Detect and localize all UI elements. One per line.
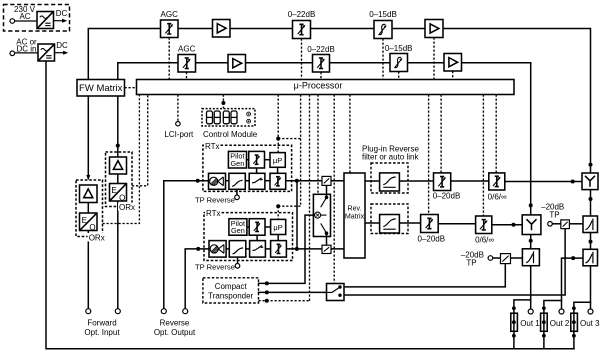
ORx-R module (dashed) [106,152,133,207]
fuse/choke of Out 2 [541,313,548,331]
switch of RTx1 [249,173,265,189]
svg-text:TP: TP [549,210,559,219]
svg-text:TP Reverse: TP Reverse [195,263,235,272]
amplifier A3 (forward path 1) [425,20,443,38]
node: below Y1 [589,197,593,201]
wire: 0/6/inf (1) to combiner Y1 [505,181,582,183]
wire: dashed to 0/6/inf (2) [482,95,484,217]
node: fuse 1 top pin [512,306,516,310]
svg-text:ORx: ORx [89,234,105,243]
wire: dashed 0-15dB (1) control [382,39,384,80]
equalizer 0-15dB (forward path 1) [374,21,392,39]
svg-text:E: E [82,216,87,225]
wire: AGC2 to amp A2 [196,62,229,64]
svg-text:0–15dB: 0–15dB [369,10,397,19]
wire: dashed 0-15dB (2) control [398,72,400,80]
wire: dashed bus down right of RTx [300,95,302,207]
wire: RTx1 internal segments [226,180,229,182]
wire: dashed to 0-20dB (1) [440,95,442,173]
fuse/choke of Out 3 [571,313,578,331]
svg-text:0–22dB: 0–22dB [288,10,316,19]
wire: 0-15dB (2) to amp A4 [408,62,445,64]
FW Matrix [77,80,125,97]
svg-text:0–20dB: 0–20dB [418,234,446,243]
dashed control lines [103,38,497,301]
svg-text:O: O [119,193,125,202]
wire: dashed to 0/6/inf (1) [495,95,497,173]
wire: RTx2 PilotGen-atten-uP links [247,226,249,228]
svg-text:μ-Processor: μ-Processor [294,80,343,90]
amplifier A2 (forward path 2) [228,55,246,73]
svg-text:μP: μP [273,156,282,165]
test point: -20dB TP right [548,222,553,227]
amplifier A1 (forward path 1) [213,20,231,38]
transponder routing switch [327,284,345,301]
svg-text:LCI-port: LCI-port [164,130,194,139]
wire: dashed to OT module [317,95,319,195]
pilot generator of RTx1 [228,151,246,168]
attenuator AGC2 (forward path 2) [178,55,196,73]
plug-in reverse filter 2 (dashed) [371,204,408,234]
indicator LEDs of Control Module [247,112,251,116]
svg-text:Rev.: Rev. [347,204,361,212]
laser transmitter of RTx1 [209,173,226,189]
level pad of RTx1 [229,173,245,189]
switch R1 (below Y1) [583,216,598,233]
microprocessor uP of RTx2 [271,219,286,234]
wire: switch R2 down to Out 3 jack [590,266,592,309]
wire: power DC line from AC/DC converter down and along bottom rail [46,61,574,349]
wire: DC output arrow of U1 [54,20,64,22]
wire: -20dB TP right: circle to box [552,223,561,225]
wire: FW Matrix down to ORx-L (arrow end) [87,96,89,179]
svg-text:E: E [111,186,116,195]
wire: RTx1 output left and down to Reverse Opt. Output jack 1 [164,181,209,309]
wire: dashed to Rev Matrix [349,95,351,174]
node: transponder port 2 [265,290,269,294]
node: uP2 control branch [276,204,280,208]
wire: 0-15dB (1) to amp A3 [392,28,425,30]
wire: tie line between RTx1 and RTx2 outputs [296,181,298,249]
jack: Reverse Opt. Output 1 [161,309,166,314]
svg-text:FW Matrix: FW Matrix [79,83,123,94]
power supply unit 230V AC (plug-in, dashed) [4,5,70,32]
arrow into ORx-L [86,175,90,180]
ORx-L module (dashed) [76,180,103,237]
attenuator 0-22dB (forward path 2) [313,55,330,73]
svg-text:Out 1: Out 1 [520,319,540,328]
wire: Rev Matrix output row A to 0-20dB (1) [365,180,434,182]
wire: dashed amp A3 control [433,38,435,80]
switch of RTx2 [250,241,266,258]
plug-in reverse filter 1 (dashed) [371,163,408,193]
switch R2 (Out 2/3 select) [583,249,598,265]
node: R2 input branch [571,256,575,260]
node: reverse B before Y2 [512,223,516,227]
wire: forward path row 1 from corner into AGC1 [88,29,160,80]
node: forward 1 above Y1 [589,163,593,167]
wire: branch to switch R2 input, down to Out 2 jack [562,258,584,309]
attenuator 0-22dB (forward path 1) [293,21,311,39]
wire: AC/DC input to converter U2 [15,52,38,54]
wire: amp A3 right, down right side to combiner Y1 [443,29,591,174]
svg-text:Gen: Gen [231,159,245,168]
wire: RTx2 line to Rev Matrix [286,248,344,250]
node: between R1 and R2 [589,240,593,244]
node: below Y2 [529,239,533,243]
wire: AGC1 to amp A1 [178,28,213,30]
wire: ORx-L E/O down to Forward Opt. Input jack 1 [87,231,89,309]
wire: dashed to 0-20dB (2) [428,95,430,215]
LCI-port connector [176,122,180,126]
amplifier A4 (forward path 2) [444,54,462,72]
tap switch T2 on RTx2 line [322,245,331,253]
Compact Transponder (dashed) [203,278,259,303]
svg-text:0/6/∞: 0/6/∞ [488,192,507,201]
svg-text:DC: DC [56,9,68,18]
svg-text:Opt. Input: Opt. Input [84,328,120,337]
jack: Forward Opt. Input 1 [86,309,91,314]
attenuator 0/6/inf (reverse path 1) [489,173,505,190]
wire: tap T1 down into OT module [326,185,328,197]
wire: RTx2 internal segments [226,248,229,250]
svg-text:AGC: AGC [161,10,179,19]
amplifier in ORx-L [80,185,98,203]
wire: FW Matrix down to ORx-R [117,96,119,157]
jack: Out 1 [528,309,533,314]
svg-text:ORx: ORx [119,203,135,212]
terminal: AC or DC input [10,51,15,56]
u-Processor bar [137,80,515,95]
wire: dashed 0-22dB (2) control [320,72,322,80]
E/O converter of ORx-R [110,184,127,202]
switch box of -20dB TP right [561,220,570,229]
attenuator (pilot level) of RTx2 [249,219,265,236]
wire: dashed AGC1 control [168,38,170,80]
svg-text:Control Module: Control Module [203,130,258,139]
switch SL (below Y2) [522,249,539,266]
wire: 0-22dB (2) to 0-15dB (2) [330,62,391,64]
wire: amp A4 right, down to combiner Y2 [462,63,531,215]
attenuator (pilot level) of RTx1 [249,151,265,168]
node: fuse 3 mid [572,320,576,324]
node: fuse 3 bottom pin [572,334,576,338]
wire: ORx-R E/O down to Forward Opt. Input jack 2 [117,201,119,309]
wire: -20dB TP left box to switch SL [511,257,523,259]
svg-text:Reverse: Reverse [160,319,190,328]
wire: RTx1 TP tap [236,189,238,195]
laser transmitter of RTx2 [209,241,226,258]
node: fuse 1 mid [512,320,516,324]
wire: dashed transponder bottom port horizontal [259,300,310,302]
wire: dashed cross link at uP2 [278,205,300,207]
svg-text:Matrix: Matrix [345,212,365,220]
fuse/choke of Out 1 [511,313,518,331]
switch box of -20dB TP left [501,254,511,264]
svg-text:Gen: Gen [231,226,245,235]
TP Reverse test point of RTx2 [235,264,240,269]
wire: dashed to transponder switch [333,95,335,284]
wire: 0-22dB (1) to 0-15dB (1) [311,28,375,30]
node: transponder port 3 [265,299,269,303]
wire: 0-20dB (2) to 0/6/inf (2) [438,223,475,225]
node: transponder port 1 [265,281,269,285]
svg-text:AC: AC [19,12,30,21]
svg-text:Opt. Output: Opt. Output [154,328,196,337]
RTx module 2 (dashed) [204,213,293,261]
combiner Y2 (output 1 branch) [522,215,541,235]
wire: switch SL down to Out 1 jack [530,266,532,309]
node: RTx1 output right [295,179,299,183]
svg-text:DC in: DC in [16,45,36,54]
attenuator 0/6/inf (reverse path 2) [476,216,492,234]
svg-text:Compact: Compact [215,282,248,291]
AC/DC converter U1 [37,12,54,29]
wire: amp A1 to 0-22dB (1) [230,28,293,30]
wire: dashed to ORx-R [132,95,148,186]
node: RTx2 output right [295,247,299,251]
wire: -20dB TP left: circle to box [493,257,501,259]
attenuator (output level) of RTx1 [270,173,286,189]
wire: 0/6/inf (2) to combiner Y2 [492,224,522,226]
svg-text:filter or auto link: filter or auto link [362,152,419,161]
wire: -20dB TP left box down, left to transponder switch top port [344,264,505,287]
wire: dashed to RTx2 uP [277,206,279,219]
wire: 0-20dB (1) to 0/6/inf (1) [451,180,489,182]
wire: OT module down to tap T2 [326,233,328,245]
7-segment display digits 8888 [207,111,238,124]
text labels [14,5,412,94]
wire: 230V AC input to converter [15,20,37,22]
TP Reverse test point of RTx1 [235,195,240,200]
svg-text:TP Reverse: TP Reverse [195,195,235,204]
node: fuse 2 bottom pin [542,334,546,338]
node: RTx1 output left [196,179,200,183]
node: fuse 1 bottom pin [512,334,516,338]
attenuator 0-20dB (reverse path 1) [434,173,451,191]
wire: ORx-L amp to E/O [87,203,89,214]
wire: dashed FW Matrix to uProcessor [125,87,137,89]
wire: dashed to ORx-L [103,95,140,224]
svg-text:0–20dB: 0–20dB [433,191,461,200]
filter F1 (high pass) [380,173,400,191]
node: fuse 2 mid [542,320,546,324]
microprocessor uP of RTx1 [270,153,285,168]
combiner Y1 (output 3 branch) [582,173,598,190]
wire: RTx2 TP tap [237,257,239,263]
wire: Out1 fuse tap [514,300,531,349]
attenuator AGC1 (forward path 1) [161,20,179,38]
pilot generator of RTx2 [229,219,247,236]
Rev Matrix [344,173,365,258]
wire: transponder top port to OT combiner circle [259,215,315,283]
svg-text:RTx: RTx [206,209,221,218]
wire: dashed to transponder bottom port [309,95,311,301]
wire: Rev Matrix output row B to 0-20dB (2) [365,222,421,224]
level pad of RTx2 [229,241,246,258]
E/O converter of ORx-L [80,213,98,231]
wire: forward path row 2 from corner into AGC2 [118,63,178,80]
svg-text:O: O [89,223,95,232]
node: RTx2 output left [196,247,200,251]
jack: Out 2 [559,309,564,314]
wire: dashed to Control Module [222,95,224,109]
svg-text:TP: TP [466,258,476,267]
node: forward 2 above Y2 [529,203,533,207]
svg-text:0–22dB: 0–22dB [307,45,335,54]
wire: dashed to LCI-port [177,95,179,122]
wire: -20dB TP right box to switch R1 [569,223,583,225]
jack: Out 3 [588,309,593,314]
RTx module 1 (dashed) [203,145,292,191]
svg-text:Out 2: Out 2 [550,319,570,328]
OT changeover module [313,194,330,236]
wire: -20dB TP right box down, left to transponder switch bottom port [344,229,565,295]
tap switch T1 on RTx1 line [322,176,331,185]
svg-text:RTx: RTx [205,142,220,151]
node: reverse A before Y1 [571,180,575,184]
wire: ORx-R amp to E/O [117,174,119,184]
svg-text:0/6/∞: 0/6/∞ [475,236,494,245]
svg-text:AGC: AGC [178,45,196,54]
test point: -20dB TP left [488,256,493,261]
wire: RTx2 output left and down to Reverse Opt. Output jack 2 [185,249,209,309]
wire: DC output arrow of U2 [55,52,65,54]
AC/DC converter U2 [38,44,55,61]
svg-text:Forward: Forward [87,319,116,328]
svg-text:Transponder: Transponder [208,292,253,301]
wire: dashed cross link at uP1 [278,138,300,140]
filter F2 (high pass) [380,215,400,234]
svg-text:0–15dB: 0–15dB [385,44,413,53]
wire: RTx1 PilotGen-atten-uP links [247,159,249,161]
wire: Y2 down to switch SL [530,235,532,249]
svg-text:DC: DC [56,41,68,50]
wire: Out2 fuse tap [544,301,562,349]
wire: dashed 0-22dB (1) control [301,39,303,80]
node: fuse 3 top pin [572,306,576,310]
wire: RTx1 line to Rev Matrix [286,180,344,182]
equalizer 0-15dB (forward path 2) [390,54,408,72]
node: ORx-R feed [116,144,120,148]
node: fuse 2 top pin [542,306,546,310]
attenuator (output level) of RTx2 [271,241,287,258]
Control Module [202,109,255,126]
svg-text:Out 3: Out 3 [580,319,600,328]
node: uP1 control branch [276,137,280,141]
terminal: 230V AC input [10,19,15,24]
wire: Out3 fuse tap [574,302,591,348]
wire: transponder middle port to transponder switch [259,291,327,293]
wire: dashed AGC2 control [186,72,188,80]
jack: Forward Opt. Input 2 [115,309,120,314]
wire: dashed amp A4 control [452,71,454,80]
wire: switch R1 down to switch R2 [590,233,592,250]
wire: Y1 down to switch R1 [590,190,592,216]
node: control module drop [221,101,225,105]
wire: amp A2 to 0-22dB (2) [246,62,313,64]
amplifier in ORx-R [110,157,127,174]
attenuator 0-20dB (reverse path 2) [421,215,439,233]
wire: dashed to RTx1 uP [277,95,279,153]
svg-text:μP: μP [273,223,282,232]
jack: Reverse Opt. Output 2 [183,309,188,314]
